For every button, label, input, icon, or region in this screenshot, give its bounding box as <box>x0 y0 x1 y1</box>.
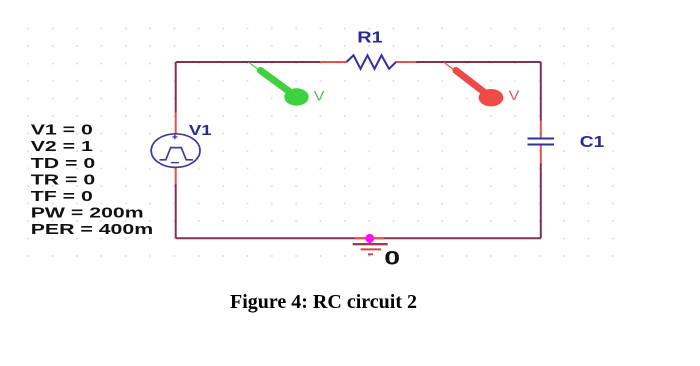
svg-text:C1: C1 <box>580 133 605 151</box>
svg-text:V: V <box>314 89 325 105</box>
svg-text:TR = 0: TR = 0 <box>31 171 95 188</box>
svg-text:PER = 400m: PER = 400m <box>31 220 153 237</box>
svg-text:R1: R1 <box>357 28 382 46</box>
svg-text:TD = 0: TD = 0 <box>31 154 95 171</box>
svg-text:V2 = 1: V2 = 1 <box>31 137 93 154</box>
svg-text:V1 = 0: V1 = 0 <box>31 121 93 138</box>
svg-text:V1: V1 <box>189 121 212 138</box>
svg-text:0: 0 <box>384 248 400 269</box>
svg-text:V: V <box>509 88 520 104</box>
svg-text:Figure 4: RC circuit 2: Figure 4: RC circuit 2 <box>230 291 417 313</box>
svg-text:TF = 0: TF = 0 <box>31 187 93 204</box>
svg-text:PW = 200m: PW = 200m <box>31 204 144 221</box>
